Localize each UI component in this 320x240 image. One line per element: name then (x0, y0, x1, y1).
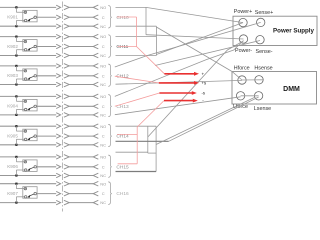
svg-text:K901: K901 (7, 15, 18, 20)
svg-text:+s: +s (202, 80, 207, 85)
svg-text:Sense-: Sense- (256, 49, 273, 55)
svg-text:NO: NO (100, 124, 106, 129)
svg-text:NC: NC (100, 173, 106, 178)
svg-text:Sense+: Sense+ (255, 10, 273, 16)
svg-text:NC: NC (100, 142, 106, 147)
svg-text:NC: NC (100, 53, 106, 58)
svg-text:-s: -s (202, 90, 206, 95)
svg-text:NO: NO (100, 34, 106, 39)
svg-text:CH10: CH10 (116, 15, 129, 21)
svg-text:NO: NO (100, 181, 106, 186)
svg-text:CH16: CH16 (116, 191, 129, 197)
svg-text:C: C (102, 191, 105, 196)
svg-text:K902: K902 (7, 44, 18, 49)
svg-text:K905: K905 (7, 134, 18, 139)
svg-text:NO: NO (100, 94, 106, 99)
svg-text:K904: K904 (7, 104, 18, 109)
svg-text:NC: NC (100, 113, 106, 118)
svg-text:Hforce: Hforce (234, 65, 250, 71)
svg-text:NC: NC (100, 200, 106, 205)
svg-text:CH11: CH11 (116, 44, 128, 50)
svg-text:C: C (102, 15, 105, 20)
svg-text:NO: NO (100, 5, 106, 10)
svg-text:Lsense: Lsense (254, 106, 271, 112)
svg-text:C: C (102, 104, 105, 109)
svg-text:C: C (102, 73, 105, 78)
svg-text:NC: NC (100, 24, 106, 29)
svg-text:C: C (102, 164, 105, 169)
svg-text:Power-: Power- (235, 48, 252, 54)
svg-text:NO: NO (100, 64, 106, 69)
svg-text:Lforce: Lforce (233, 104, 248, 110)
svg-text:DMM: DMM (283, 86, 300, 93)
svg-text:K907: K907 (7, 191, 18, 196)
svg-text:CH15: CH15 (116, 164, 129, 170)
svg-text:K906: K906 (7, 164, 18, 169)
svg-text:Power Supply: Power Supply (273, 28, 314, 35)
svg-text:+: + (202, 71, 205, 76)
svg-text:K903: K903 (7, 73, 18, 78)
svg-text:NO: NO (100, 155, 106, 160)
svg-text:NC: NC (100, 82, 106, 87)
svg-text:Hsense: Hsense (254, 65, 272, 71)
svg-text:Power+: Power+ (234, 9, 252, 15)
svg-text:CH13: CH13 (116, 104, 129, 110)
svg-text:C: C (102, 134, 105, 139)
svg-text:-: - (202, 98, 204, 103)
svg-text:C: C (102, 44, 105, 49)
